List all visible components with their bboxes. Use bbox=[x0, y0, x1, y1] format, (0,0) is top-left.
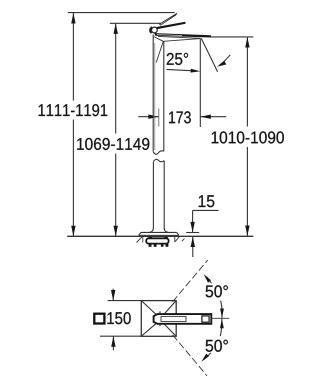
dimension line 1111-1191 bbox=[71, 13, 75, 236]
block foot 4 bbox=[166, 244, 169, 247]
lower 50 deg annotation bbox=[201, 319, 224, 362]
floor hatch left bbox=[137, 237, 143, 243]
base plate left bevel bbox=[139, 232, 141, 235]
25 deg arc with arrowhead bbox=[220, 55, 231, 65]
faucet lever rest position (dark blade) bbox=[156, 22, 185, 29]
upper 50 deg annotation bbox=[204, 274, 224, 318]
dimension line 1069-1149 bbox=[114, 23, 118, 236]
faucet lever raised position (thin wedge) bbox=[160, 14, 177, 26]
plate-top tick for 15 bbox=[186, 232, 199, 234]
dimension 15 upper line with down arrow bbox=[192, 210, 194, 232]
column flare right bbox=[164, 229, 168, 233]
block foot 3 bbox=[161, 244, 164, 247]
anchor recess right wall bbox=[174, 237, 176, 242]
dimension text 150 bbox=[107, 312, 130, 324]
dimension text 1069-1149 bbox=[77, 138, 149, 150]
spout bar inner rectangle bbox=[161, 316, 186, 321]
spout blade inner highlight bbox=[157, 34, 182, 37]
centerline of column for 173 bbox=[158, 109, 160, 127]
base plate bottom bbox=[139, 234, 179, 236]
square-150 dimension: bottom ext line bbox=[100, 335, 142, 337]
spout blade (dark) bbox=[154, 33, 211, 37]
dimension 15 text bbox=[199, 195, 215, 207]
floor line bbox=[67, 235, 253, 237]
dimension text 1010-1090 bbox=[212, 131, 284, 143]
upper 50 deg text bbox=[206, 285, 228, 297]
interior shading line under head bbox=[156, 41, 163, 62]
anchor recess left wall bbox=[142, 237, 144, 243]
mounting block bbox=[146, 238, 168, 243]
mounting screw nub left bbox=[149, 237, 152, 239]
outlet vertical extension line (25 deg vertex) bbox=[199, 38, 201, 127]
dimension text 1111-1191 bbox=[39, 104, 108, 116]
bar tick top bbox=[159, 311, 161, 313]
column right edge (lower) bbox=[163, 161, 165, 230]
square-150 dimension: top ext line bbox=[108, 300, 142, 302]
aerator square bbox=[202, 316, 209, 322]
plate diagonal BR bbox=[164, 324, 176, 336]
spout bar (plan) bbox=[154, 314, 212, 324]
plate diagonal BL bbox=[142, 324, 156, 336]
swivel dashed line lower 50 bbox=[173, 335, 207, 376]
mounting screw nub right bbox=[164, 237, 167, 239]
plate diagonal TL bbox=[142, 301, 156, 315]
25 deg slanted line bbox=[201, 38, 217, 72]
column left edge (upper) bbox=[152, 35, 154, 152]
dimension 173 bbox=[138, 115, 226, 119]
lever hinge knuckle bbox=[152, 27, 158, 33]
bar tick bottom bbox=[159, 324, 161, 326]
top extension line (overall height) bbox=[68, 12, 175, 14]
25 deg text bbox=[167, 53, 188, 65]
base plate right bevel bbox=[177, 232, 179, 235]
dimension 15 lower line with up arrow bbox=[192, 237, 194, 257]
column left edge (lower) bbox=[152, 162, 154, 230]
base plate top bbox=[141, 231, 177, 233]
square-150 dimension line top with down arrow bbox=[111, 289, 115, 301]
floor hatch right 2 bbox=[182, 239, 185, 242]
column left inner highlight bbox=[154, 43, 156, 150]
lower 50 deg text bbox=[206, 340, 228, 352]
floor hatch right 1 bbox=[175, 237, 180, 242]
square symbol of 150 bbox=[94, 314, 104, 324]
extension line (outlet height 1010-1090) bbox=[210, 36, 253, 38]
swivel dashed line upper 50 bbox=[173, 260, 208, 302]
column flare left bbox=[150, 229, 154, 233]
block foot 1 bbox=[149, 244, 152, 247]
break wave lower bbox=[153, 159, 164, 161]
dimension line 1010-1090 bbox=[245, 37, 249, 236]
break wave upper bbox=[153, 151, 164, 154]
25 deg leader with arrow bbox=[167, 69, 192, 70]
spout underside lower edge bbox=[163, 39, 200, 42]
block foot 2 bbox=[154, 244, 157, 247]
square escutcheon plate bbox=[141, 301, 176, 337]
extension line (spout height 1069-1149) bbox=[110, 22, 161, 24]
dimension text 173 bbox=[169, 111, 191, 123]
spout underside line bbox=[158, 36, 200, 38]
square-150 dimension line bottom with up arrow bbox=[111, 336, 115, 350]
dimension 15 leader shelf bbox=[193, 209, 219, 211]
neck bevel bbox=[154, 37, 164, 42]
axis extension line bbox=[211, 317, 230, 319]
column right edge (upper) bbox=[163, 41, 165, 151]
plate diagonal TR bbox=[164, 301, 176, 314]
